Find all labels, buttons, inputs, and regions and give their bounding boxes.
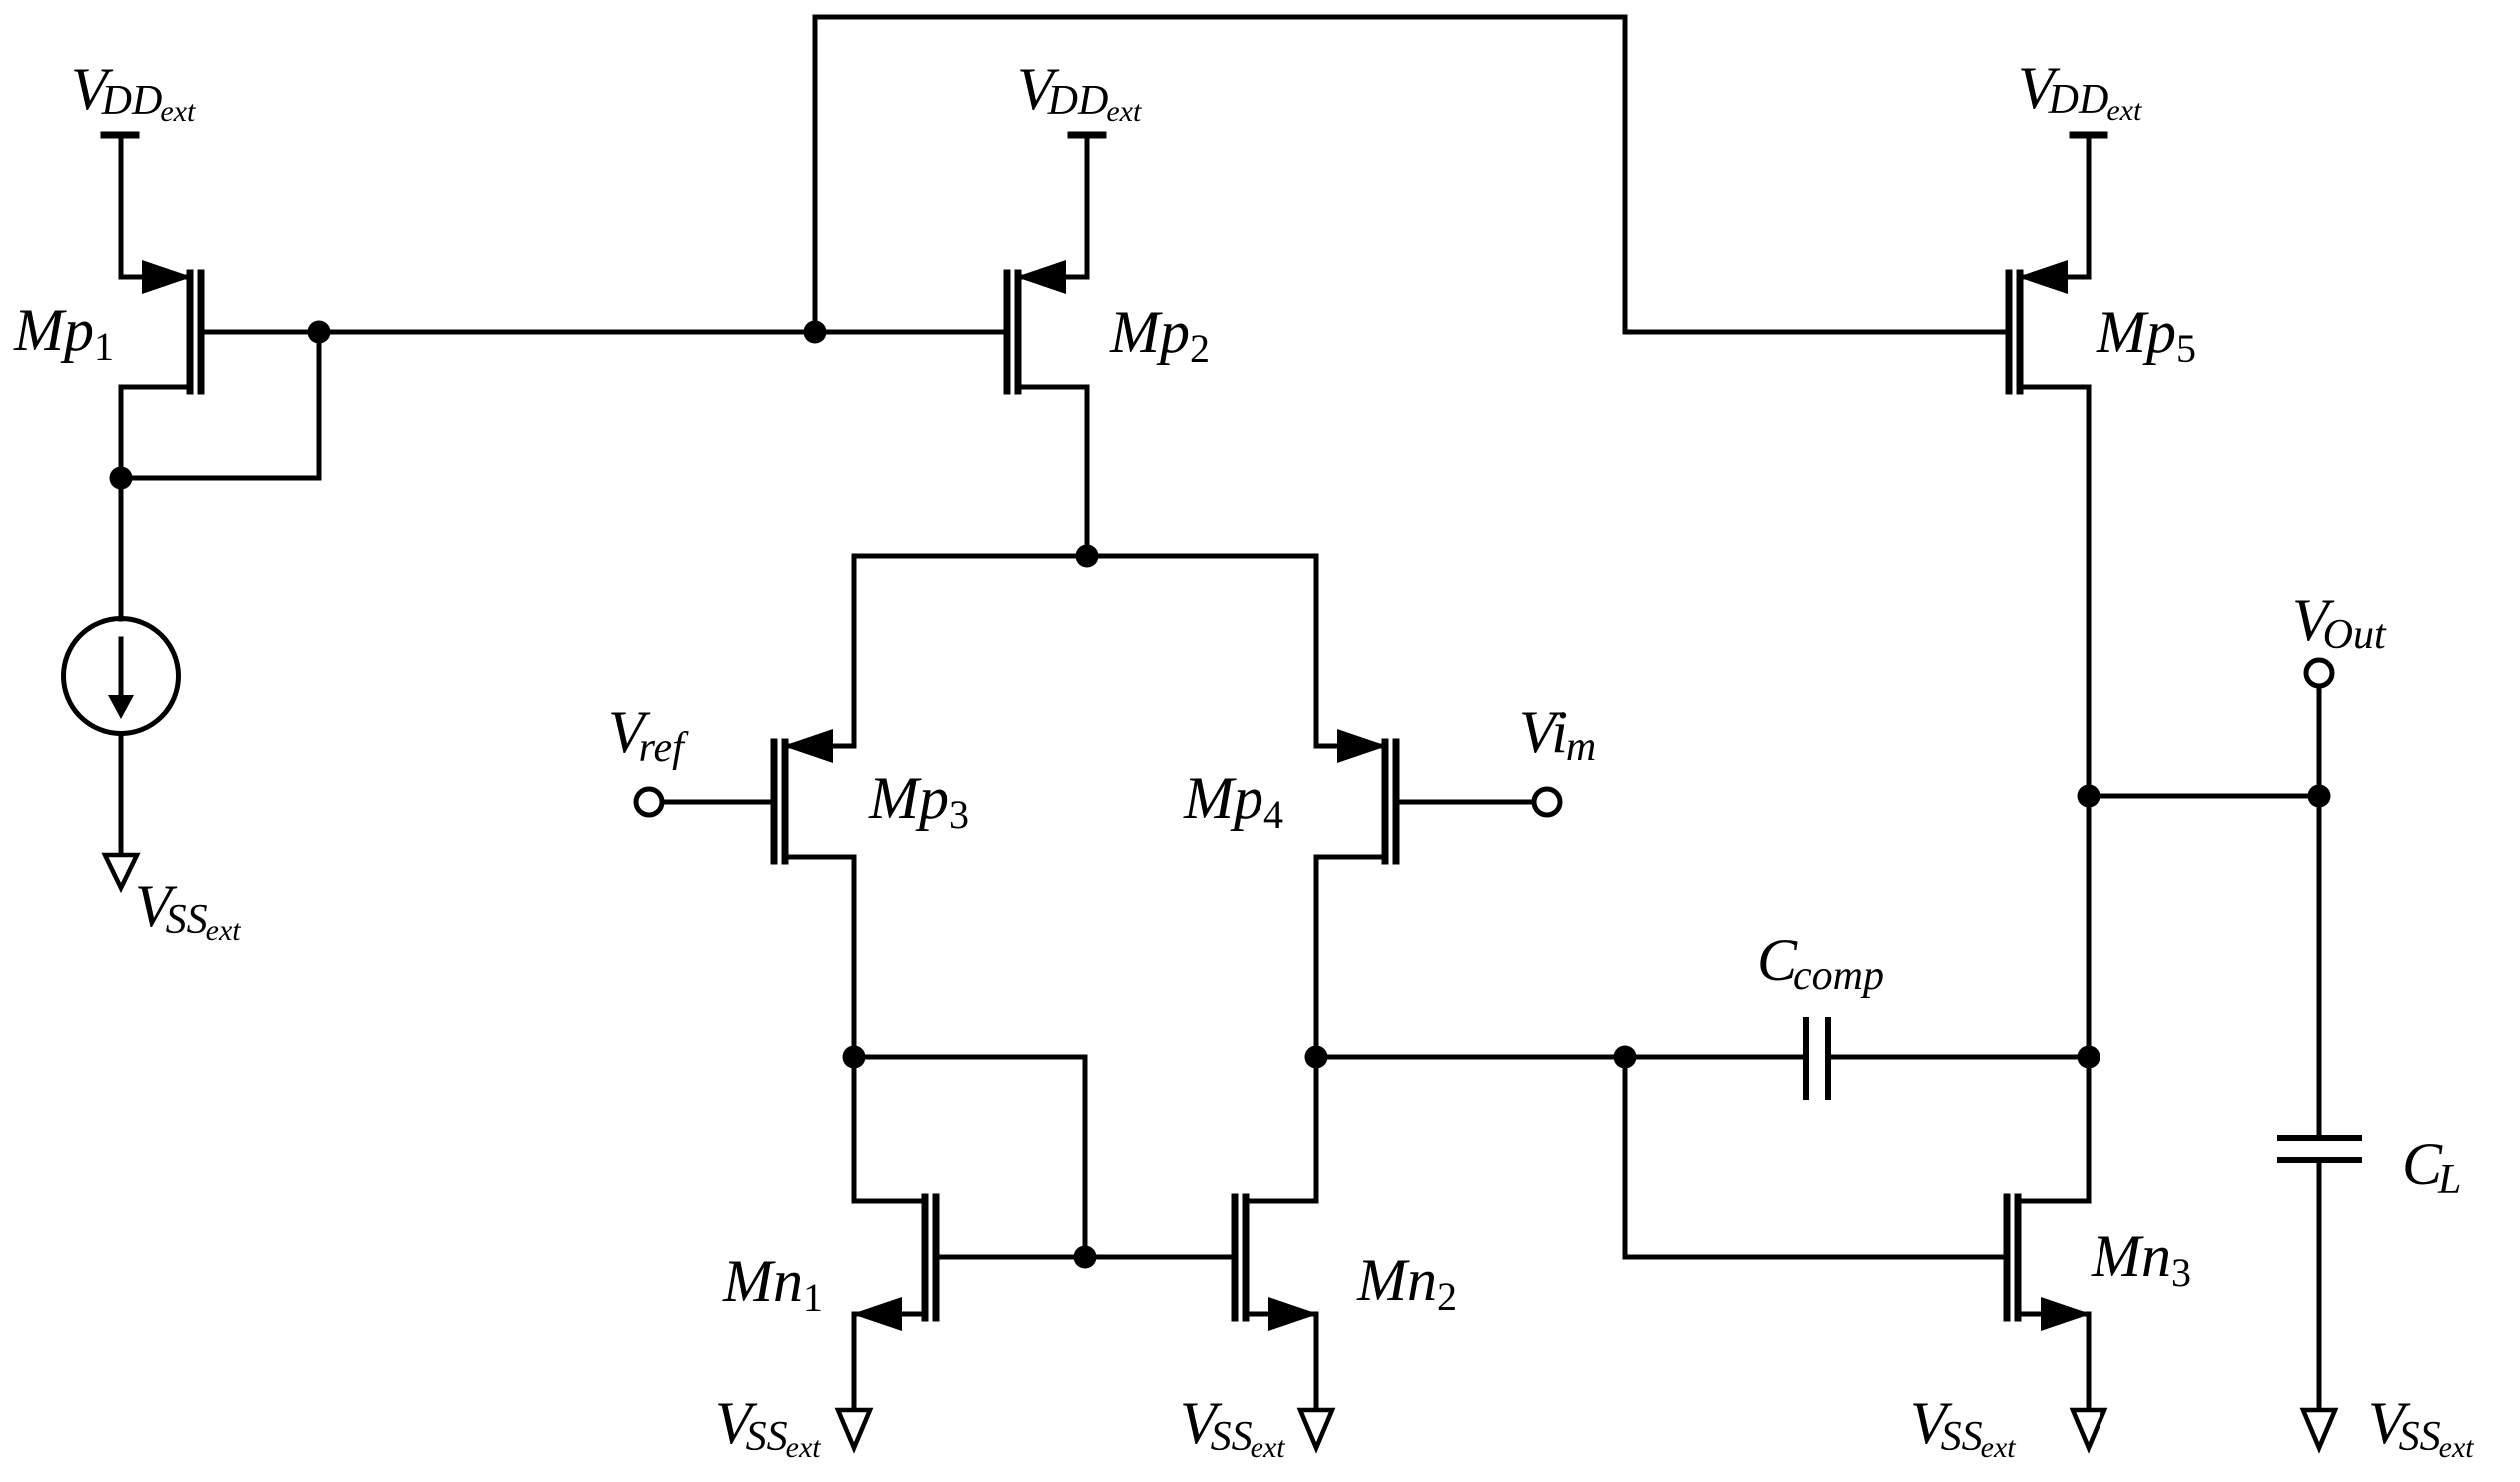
transistor Mn2 <box>1235 1057 1318 1409</box>
transistor Mn3 <box>2007 1057 2091 1409</box>
current source I_bias <box>64 619 179 734</box>
node Ccomp right junction <box>2078 1046 2100 1069</box>
transistor Mp5 <box>2009 260 2089 1057</box>
wire current source to VSS <box>119 734 124 855</box>
power VDD_ext at Mp2 <box>1071 135 1103 277</box>
wire Ccomp tap to Mn3 gate <box>1625 1057 2007 1257</box>
wire tail rail <box>854 554 1316 559</box>
wire drain to current source <box>119 478 124 619</box>
power VDD_ext at Mp1 <box>104 135 136 277</box>
ground VSS_ext at CL <box>2303 1410 2335 1448</box>
wire tail to Mp4 source <box>1314 556 1319 746</box>
transistor Mp4 <box>1316 729 1534 1057</box>
node output junction at Mp5 drain <box>2078 785 2100 808</box>
node Mp3 drain junction <box>843 1046 866 1069</box>
ground VSS_ext at Mn1 <box>838 1410 870 1448</box>
transistor Mp2 <box>815 260 1087 556</box>
transistor Mp3 <box>662 729 854 1057</box>
wire Mn2 drain to Ccomp <box>1316 1055 1803 1060</box>
wire tail to Mp3 source <box>852 556 857 746</box>
power VDD_ext at Mp5 <box>2073 135 2104 277</box>
terminal VOut <box>2306 660 2332 796</box>
node Mn1 gate junction <box>1074 1246 1097 1269</box>
node Mp1 drain junction <box>110 467 133 490</box>
capacitor CL <box>2280 796 2359 1409</box>
node CL top junction <box>2308 785 2331 808</box>
terminal Vref <box>636 789 662 815</box>
ground VSS_ext at Mn2 <box>1300 1410 1332 1448</box>
wire Mn1 diode connection <box>854 1057 1085 1257</box>
transistor Mp1 <box>121 260 201 478</box>
node Mn2 drain junction <box>1305 1046 1328 1069</box>
node Mp2 gate junction <box>804 321 827 344</box>
node tail junction <box>1076 545 1099 568</box>
ground VSS_ext left <box>105 855 137 888</box>
transistor Mn1 <box>852 1057 1235 1409</box>
wire Mp1 gate-drain diode connection <box>121 332 319 478</box>
ground VSS_ext at Mn3 <box>2073 1410 2104 1448</box>
wire Mp1 gate to Mp2 gate <box>201 330 815 335</box>
capacitor Ccomp <box>1806 1020 2089 1097</box>
node Mp1 gate junction <box>308 321 331 344</box>
node Ccomp tap junction <box>1614 1046 1637 1069</box>
terminal Vim <box>1534 789 1560 815</box>
wire output to CL <box>2089 794 2319 799</box>
wire top bias rail <box>815 17 2007 333</box>
